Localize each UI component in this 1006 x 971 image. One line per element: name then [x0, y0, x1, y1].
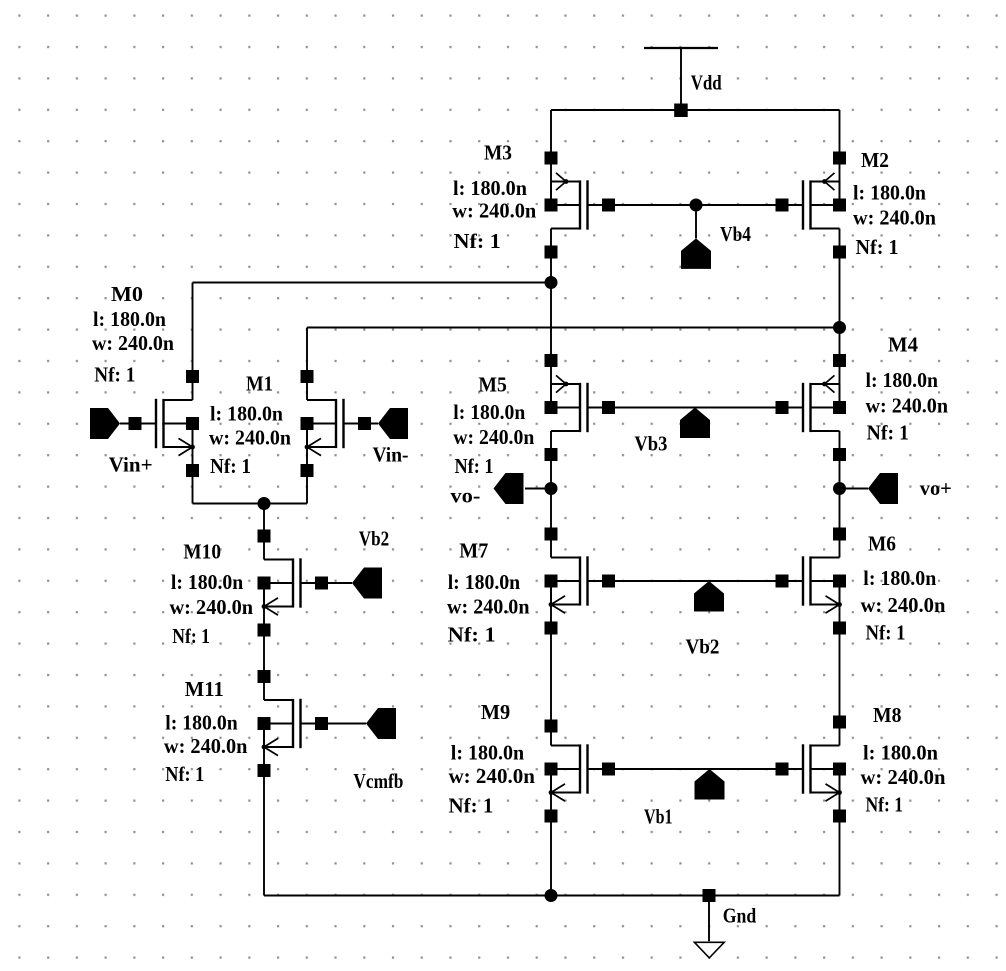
svg-text:Nf: 1: Nf: 1 — [455, 454, 494, 478]
label M10 w: 240.0n — [170, 595, 254, 619]
node vo+ junction — [833, 482, 846, 495]
wire vo- lead — [525, 488, 551, 490]
power symbol Vdd bar — [644, 47, 718, 49]
label Gnd — [723, 904, 757, 928]
svg-text:l: 180.0n: l: 180.0n — [453, 400, 525, 424]
wire M11 bulk-source tie — [263, 724, 265, 748]
pin vo- — [494, 473, 524, 504]
svg-text:Vin+: Vin+ — [109, 453, 153, 477]
svg-text:M10: M10 — [183, 540, 221, 564]
svg-text:l: 180.0n: l: 180.0n — [448, 570, 521, 594]
svg-text:Nf: 1: Nf: 1 — [866, 793, 904, 817]
svg-text:l: 180.0n: l: 180.0n — [863, 566, 936, 590]
pin Vb4 — [681, 238, 711, 269]
svg-text:vo+: vo+ — [920, 476, 952, 500]
svg-text:l: 180.0n: l: 180.0n — [451, 741, 525, 765]
label M9 l: 180.0n — [451, 741, 525, 765]
wire M10 gate lead to Vb2 — [301, 582, 352, 584]
wire M6 bulk-source tie — [839, 581, 841, 605]
svg-text:Vb3: Vb3 — [634, 432, 667, 456]
svg-text:Nf: 1: Nf: 1 — [454, 229, 501, 253]
wire right column: M2 drain to M4 source — [839, 229, 841, 385]
label M8 Nf: 1 — [866, 793, 904, 817]
label Vdd — [691, 71, 722, 95]
node Vb4 junction — [690, 199, 703, 212]
label M11 w: 240.0n — [164, 734, 248, 758]
label M3 Nf: 1 — [454, 229, 501, 253]
wire M0 drain up — [192, 283, 194, 401]
wire Vb4 stem — [695, 205, 697, 238]
pin Gnd square — [703, 889, 716, 902]
label Vb2 at M10 — [359, 527, 389, 551]
svg-text:M9: M9 — [481, 700, 510, 724]
transistor M11 — [258, 670, 329, 777]
transistor M4 — [776, 354, 847, 461]
wire M3-M2 gate row — [609, 204, 782, 206]
wire Vdd rail (top) — [551, 109, 840, 111]
label M6 Nf: 1 — [866, 621, 906, 645]
wire M3 source-bulk tie — [550, 182, 552, 206]
svg-text:w: 240.0n: w: 240.0n — [861, 593, 946, 617]
transistor M7 — [545, 528, 616, 635]
pin Vb3 — [680, 408, 710, 439]
svg-text:Nf: 1: Nf: 1 — [172, 624, 210, 648]
svg-text:Nf: 1: Nf: 1 — [165, 762, 204, 786]
label M11 l: 180.0n — [165, 711, 238, 735]
wire right column: rail to M2 source — [839, 110, 841, 182]
label M5 l: 180.0n — [453, 400, 525, 424]
label M8 M8 — [873, 703, 902, 727]
label M7 w: 240.0n — [447, 595, 530, 619]
label M9 Nf: 1 — [449, 794, 494, 818]
wire M7-M6 gate row — [609, 580, 783, 582]
label M0 l: 180.0n — [93, 307, 166, 331]
transistor M8 — [776, 716, 847, 823]
wire Vin- gate lead — [344, 423, 379, 425]
svg-text:M7: M7 — [459, 539, 488, 563]
pin Vin+ — [90, 408, 120, 439]
label M6 w: 240.0n — [861, 593, 946, 617]
svg-text:w: 240.0n: w: 240.0n — [861, 765, 946, 789]
label M7 l: 180.0n — [448, 570, 521, 594]
svg-text:Vcmfb: Vcmfb — [353, 769, 403, 793]
wire right column: M4 drain to M6 drain — [839, 431, 841, 558]
label M1 Nf: 1 — [210, 454, 251, 478]
label M11 Nf: 1 — [165, 762, 204, 786]
wire Vdd stem — [680, 48, 682, 110]
label Vb4 — [720, 222, 751, 246]
label M11 M11 — [185, 677, 224, 701]
svg-text:l: 180.0n: l: 180.0n — [866, 368, 939, 392]
wire M10 bulk-source tie — [263, 583, 265, 607]
svg-text:M0: M0 — [111, 282, 143, 306]
svg-text:Nf: 1: Nf: 1 — [210, 454, 251, 478]
svg-text:Nf: 1: Nf: 1 — [867, 421, 910, 445]
label M1 M1 — [246, 372, 273, 396]
label Vb1 — [644, 805, 673, 829]
svg-text:w: 240.0n: w: 240.0n — [453, 425, 534, 449]
svg-text:Vb1: Vb1 — [644, 805, 673, 829]
svg-text:Nf: 1: Nf: 1 — [448, 623, 496, 647]
node tail junction — [258, 497, 271, 510]
label M5 w: 240.0n — [453, 425, 534, 449]
svg-text:w: 240.0n: w: 240.0n — [92, 331, 174, 355]
svg-text:M11: M11 — [185, 677, 224, 701]
wire M9-M8 gate row — [609, 768, 782, 770]
label Vb3 — [634, 432, 667, 456]
svg-text:Nf: 1: Nf: 1 — [449, 794, 494, 818]
label M0 w: 240.0n — [92, 331, 174, 355]
svg-text:w: 240.0n: w: 240.0n — [853, 206, 936, 230]
wire M1 source-bulk tie — [306, 424, 308, 448]
label M3 M3 — [484, 141, 512, 165]
svg-text:l: 180.0n: l: 180.0n — [165, 711, 238, 735]
transistor M3 — [545, 152, 616, 259]
svg-text:Vdd: Vdd — [691, 71, 722, 95]
pin Vin- — [378, 408, 408, 439]
svg-text:l: 180.0n: l: 180.0n — [863, 741, 938, 765]
pin Vb2 — [694, 581, 724, 612]
wire ground rail — [264, 895, 840, 897]
wire M9 bulk-source tie — [550, 769, 552, 793]
svg-text:l: 180.0n: l: 180.0n — [210, 402, 283, 426]
wire M1 drain up — [306, 328, 308, 401]
label M5 M5 — [478, 373, 507, 397]
label Vin- — [373, 443, 409, 467]
transistor M10 — [258, 530, 329, 637]
svg-text:w: 240.0n: w: 240.0n — [164, 734, 248, 758]
transistor M9 — [545, 720, 616, 823]
label M2 w: 240.0n — [853, 206, 936, 230]
label M10 l: 180.0n — [171, 570, 244, 594]
label M2 l: 180.0n — [853, 181, 926, 205]
svg-text:Vb4: Vb4 — [720, 222, 751, 246]
transistor M5 — [545, 354, 616, 461]
label M4 Nf: 1 — [867, 421, 910, 445]
ground symbol stem — [708, 896, 710, 942]
transistor M0 — [129, 370, 200, 477]
svg-text:l: 180.0n: l: 180.0n — [171, 570, 244, 594]
wire M4 source-bulk tie — [839, 384, 841, 408]
node vo- junction — [545, 482, 558, 495]
label vo+ — [920, 476, 952, 500]
label M1 l: 180.0n — [210, 402, 283, 426]
wire M5 source-bulk tie — [550, 384, 552, 408]
pin vo+ — [868, 473, 898, 504]
svg-text:l: 180.0n: l: 180.0n — [853, 181, 926, 205]
wire M1 source to tail node — [264, 503, 307, 505]
wire Vin+ gate lead — [120, 423, 156, 425]
svg-text:w: 240.0n: w: 240.0n — [452, 199, 536, 223]
wire tail to M10 drain — [263, 504, 265, 560]
wire left column: rail to M3 source — [550, 110, 552, 182]
svg-text:M8: M8 — [873, 703, 902, 727]
svg-text:Vb2: Vb2 — [686, 635, 720, 659]
wire left column: M3 drain to M5 source — [550, 229, 552, 385]
svg-text:M6: M6 — [868, 532, 896, 556]
label M0 Nf: 1 — [94, 363, 135, 387]
label M7 Nf: 1 — [448, 623, 496, 647]
pin Vb2 (M10 gate) — [352, 568, 382, 599]
pin Vdd square — [674, 104, 688, 118]
wire M8 bulk-source tie — [839, 769, 841, 793]
label M2 Nf: 1 — [856, 235, 899, 259]
label Vcmfb — [353, 769, 403, 793]
svg-text:Nf: 1: Nf: 1 — [856, 235, 899, 259]
transistor M1 — [301, 370, 372, 477]
label M2 M2 — [861, 148, 889, 172]
label M7 M7 — [459, 539, 488, 563]
label M10 M10 — [183, 540, 221, 564]
wire M11 gate lead to Vcmfb — [301, 723, 366, 725]
wire M0 source down — [192, 447, 194, 504]
label M5 Nf: 1 — [455, 454, 494, 478]
svg-text:Vin-: Vin- — [373, 443, 409, 467]
svg-text:w: 240.0n: w: 240.0n — [209, 426, 291, 450]
label M3 l: 180.0n — [453, 176, 527, 200]
wire left column: M9 source to ground rail — [550, 793, 552, 896]
wire M0 source to tail node — [193, 503, 265, 505]
label M9 M9 — [481, 700, 510, 724]
wire M10 source to M11 drain — [263, 607, 265, 701]
node M1 drain / M2 drain junction — [833, 321, 846, 334]
label Vin+ — [109, 453, 153, 477]
wire left column: M7 source to M9 drain — [550, 605, 552, 746]
label M4 M4 — [888, 333, 918, 357]
svg-text:M1: M1 — [246, 372, 273, 396]
transistor M6 — [776, 528, 847, 635]
label M9 w: 240.0n — [449, 764, 536, 788]
label M8 w: 240.0n — [861, 765, 946, 789]
svg-text:l: 180.0n: l: 180.0n — [453, 176, 527, 200]
wire M7 bulk-source tie — [550, 581, 552, 605]
label M3 w: 240.0n — [452, 199, 536, 223]
transistor M2 — [776, 152, 847, 259]
label M4 l: 180.0n — [866, 368, 939, 392]
svg-text:w: 240.0n: w: 240.0n — [866, 394, 949, 418]
wire right column: M6 source to M8 drain — [839, 605, 841, 746]
svg-text:M3: M3 — [484, 141, 512, 165]
label Vb2 — [686, 635, 720, 659]
label M10 Nf: 1 — [172, 624, 210, 648]
wire M2 source-bulk tie — [839, 182, 841, 206]
label vo- — [450, 484, 480, 508]
label M4 w: 240.0n — [866, 394, 949, 418]
wire left column: M5 drain to M7 drain — [550, 431, 552, 558]
label M8 l: 180.0n — [863, 741, 938, 765]
svg-text:vo-: vo- — [450, 484, 480, 508]
wire M1 drain to right column — [307, 327, 840, 329]
wire M5-M4 gate row — [609, 407, 782, 409]
svg-text:M5: M5 — [478, 373, 507, 397]
label M6 M6 — [868, 532, 896, 556]
svg-text:l: 180.0n: l: 180.0n — [93, 307, 166, 331]
wire M0 drain to left column — [193, 282, 552, 284]
svg-text:w: 240.0n: w: 240.0n — [449, 764, 536, 788]
svg-text:Nf: 1: Nf: 1 — [866, 621, 906, 645]
label M1 w: 240.0n — [209, 426, 291, 450]
svg-text:M2: M2 — [861, 148, 889, 172]
svg-text:w: 240.0n: w: 240.0n — [170, 595, 254, 619]
svg-text:M4: M4 — [888, 333, 918, 357]
wire M1 source down — [306, 447, 308, 504]
pin Vb1 — [695, 769, 725, 800]
svg-text:w: 240.0n: w: 240.0n — [447, 595, 530, 619]
wire right column: M8 source to ground rail — [839, 793, 841, 896]
wire M0 source-bulk tie — [192, 424, 194, 448]
pin Vcmfb — [366, 708, 396, 739]
ground symbol triangle — [694, 942, 724, 958]
wire vo+ lead — [840, 488, 869, 490]
svg-text:Nf: 1: Nf: 1 — [94, 363, 135, 387]
label M0 M0 — [111, 282, 143, 306]
svg-text:Gnd: Gnd — [723, 904, 757, 928]
wire M11 source to ground rail — [263, 747, 265, 896]
label M6 l: 180.0n — [863, 566, 936, 590]
svg-text:Vb2: Vb2 — [359, 527, 389, 551]
node M0 drain / M3 gate junction — [545, 276, 558, 289]
node ground rail junction — [545, 889, 558, 902]
